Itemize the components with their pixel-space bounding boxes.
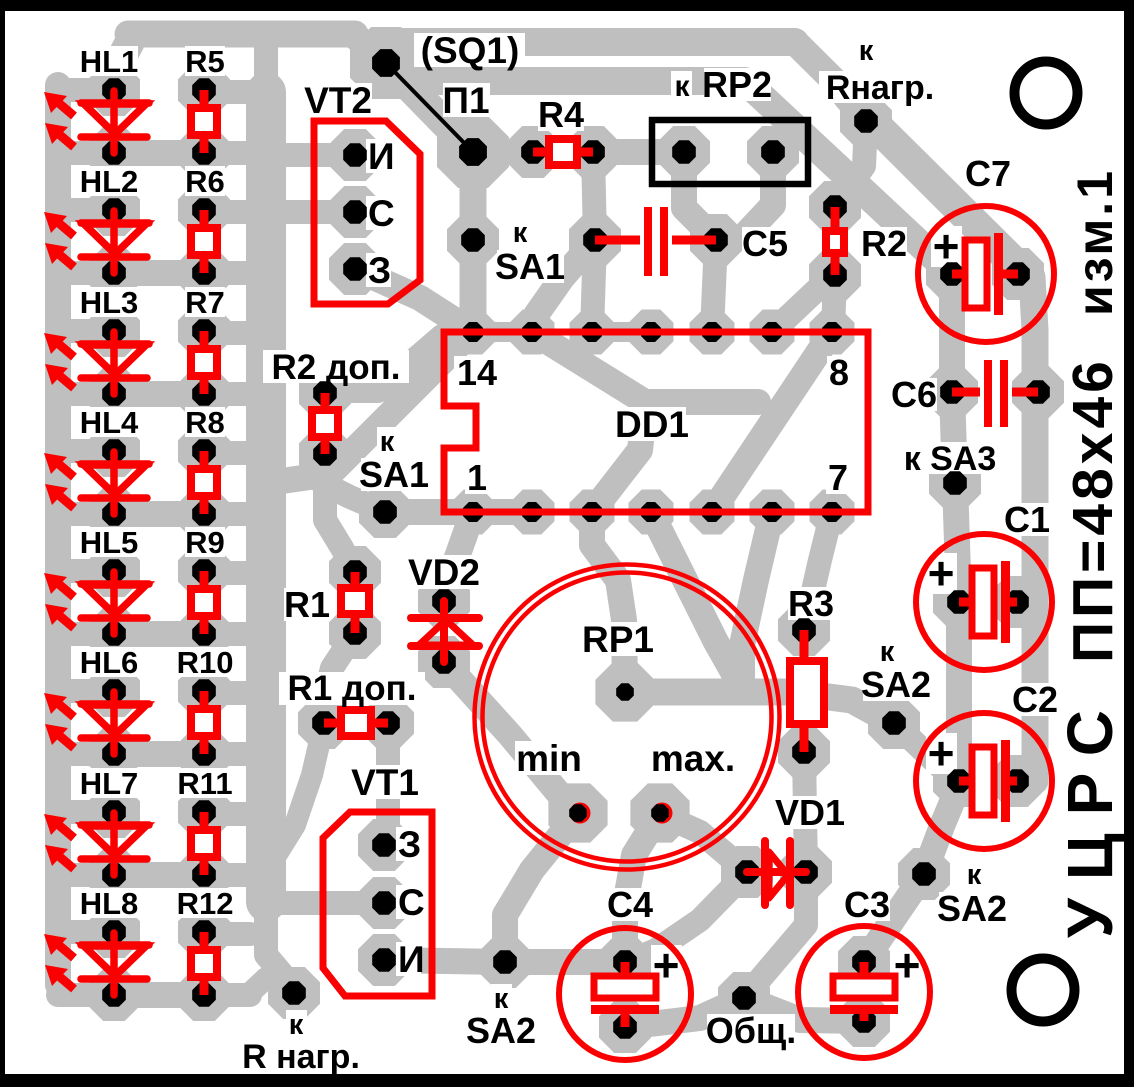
- copper HL8 cathode pad: [88, 969, 140, 1021]
- IC DD1 outline: [444, 332, 868, 512]
- copper HL6 cathode pad: [88, 728, 140, 780]
- wire C1R stub: [1017, 590, 1035, 614]
- wire VD2 to min: [444, 662, 578, 813]
- wire stub HL6 top: [58, 679, 114, 703]
- copper R5 pad top: [178, 64, 230, 116]
- wire C4 to Obsh: [625, 998, 744, 1027]
- copper C3 pad bottom: [838, 995, 890, 1047]
- wire P1 to R4: [473, 139, 533, 165]
- R3 pad top: [792, 618, 816, 642]
- copper DD1 pin pad bottom 3: [629, 490, 674, 535]
- R3 pad bottom: [792, 740, 816, 764]
- copper Obsh pad: [718, 972, 770, 1024]
- svg-text:к: к: [674, 70, 690, 103]
- wire top bar elbow to SQ1: [352, 34, 386, 63]
- R11 pad top: [192, 800, 216, 824]
- capacitor C3: [798, 926, 930, 1058]
- svg-text:SA2: SA2: [466, 1010, 536, 1051]
- svg-text:C4: C4: [607, 884, 653, 925]
- capacitor C7: [918, 206, 1054, 342]
- resistor R9: [200, 571, 209, 634]
- C1 pad left: [947, 590, 971, 614]
- RP2 conn pad left: [672, 140, 696, 164]
- copper Rload k pad: [268, 967, 320, 1019]
- wire R3 top to pin7: [804, 512, 832, 630]
- wire R4 to C5L: [593, 152, 595, 240]
- wire HL1-R5 bar: [114, 140, 204, 166]
- svg-text:1: 1: [467, 457, 487, 498]
- wire VD1 to Obsh: [744, 872, 806, 998]
- svg-text:R6: R6: [185, 164, 225, 199]
- HL8 cathode pad: [102, 983, 126, 1007]
- wire pin1 to VD2: [444, 512, 473, 601]
- svg-text:R2 доп.: R2 доп.: [272, 348, 401, 387]
- copper R12 pad top: [178, 906, 230, 958]
- DD1 pin pad top 0: [463, 322, 483, 342]
- wire left trunk: [45, 85, 71, 985]
- resistor R3: [800, 630, 809, 752]
- svg-text:max.: max.: [651, 738, 735, 779]
- svg-text:С: С: [398, 882, 425, 923]
- copper R3 pad top: [778, 604, 830, 656]
- wire stub HL4 bottom: [58, 502, 114, 526]
- HL6 cathode pad: [102, 742, 126, 766]
- VT2 pad C: [343, 200, 367, 224]
- C5 pad right: [704, 228, 728, 252]
- R1 pad bottom: [343, 621, 367, 645]
- copper HL8 anode pad: [88, 906, 140, 958]
- copper R8 pad bottom: [178, 488, 230, 540]
- HL5 anode pad: [102, 559, 126, 583]
- DD1 pin pad bottom 5: [762, 502, 782, 522]
- copper C6 pad left: [926, 366, 978, 418]
- resistor R8: [200, 451, 209, 514]
- copper VD2 pad top: [418, 575, 470, 627]
- C2 pad left: [947, 769, 971, 793]
- svg-text:SA1: SA1: [359, 454, 429, 495]
- R1dop pad right: [376, 711, 400, 735]
- SA1 pad top: [461, 228, 485, 252]
- wire SA2 to C2L: [894, 723, 952, 778]
- svg-text:14: 14: [457, 352, 497, 393]
- mounting hole bottom right: [1012, 959, 1075, 1022]
- wire stub HL6 bottom: [58, 742, 114, 766]
- VD2 pad bottom: [432, 650, 456, 674]
- copper R5 pad bottom: [178, 127, 230, 179]
- svg-text:HL1: HL1: [80, 44, 139, 79]
- wire VD1 to max: [662, 815, 747, 872]
- svg-text:C1: C1: [1004, 499, 1050, 540]
- R7 pad top: [192, 319, 216, 343]
- copper HL2 anode pad: [88, 184, 140, 236]
- copper VT1 pad I: [358, 934, 410, 986]
- wire pin1 bar: [385, 499, 532, 525]
- copper VD1 pad right: [780, 846, 832, 898]
- copper HL1 anode pad: [88, 64, 140, 116]
- resistor R7: [200, 331, 209, 394]
- copper RP2 conn pad left: [658, 126, 710, 178]
- wire stub R8 bottom: [204, 502, 250, 526]
- R9 pad top: [192, 559, 216, 583]
- wire cap trunk left: [952, 274, 959, 781]
- svg-text:C7: C7: [965, 153, 1011, 194]
- copper SA1 pad top: [447, 214, 499, 266]
- svg-text:HL3: HL3: [80, 285, 139, 320]
- svg-text:VD2: VD2: [408, 552, 480, 593]
- wire C7R stub: [1018, 274, 1032, 280]
- copper VD2 pad bottom: [418, 636, 470, 688]
- wire stub R5 bottom: [204, 141, 250, 165]
- svg-text:З: З: [368, 250, 391, 291]
- resistor R5: [200, 90, 209, 153]
- wire min to SA2m: [505, 813, 578, 962]
- DD1 pin pad bottom 3: [641, 502, 661, 522]
- copper RP2 conn pad right: [747, 126, 799, 178]
- copper DD1 pin pad bottom 5: [750, 490, 795, 535]
- copper HL5 anode pad: [88, 545, 140, 597]
- connector to RP2 (black rect): [652, 120, 808, 184]
- capacitor C5: [595, 236, 640, 245]
- diode VD2: [440, 601, 448, 662]
- copper C2 pad right: [991, 755, 1043, 807]
- copper C2 pad left: [933, 755, 985, 807]
- wire pin6 into RP1: [742, 512, 772, 692]
- wire trunk to k pad: [266, 900, 294, 988]
- HL6 anode pad: [102, 679, 126, 703]
- C6 pad left: [940, 380, 964, 404]
- copper HL5 cathode pad: [88, 608, 140, 660]
- LED HL2: [44, 211, 149, 273]
- copper VT2 pad C: [329, 186, 381, 238]
- svg-text:RP2: RP2: [702, 64, 772, 105]
- DD1 pin pad bottom 4: [702, 502, 722, 522]
- HL4 anode pad: [102, 439, 126, 463]
- copper R4 pad left: [507, 126, 559, 178]
- copper C4 pad top: [599, 936, 651, 988]
- board frame top: [0, 0, 1134, 11]
- wire stub HL3 bottom: [58, 382, 114, 406]
- copper DD1 pin pad top 3: [629, 310, 674, 355]
- wire pad bridge 1-2: [473, 322, 532, 342]
- LED HL7: [44, 813, 149, 875]
- R10 pad bottom: [192, 742, 216, 766]
- wire central trunk top: [254, 40, 278, 95]
- wire DD1 internal pin2 diag: [532, 332, 758, 402]
- svg-text:SA1: SA1: [495, 246, 565, 287]
- svg-text:HL7: HL7: [80, 766, 139, 801]
- copper HL3 cathode pad: [88, 368, 140, 420]
- wire C2R stub: [1017, 769, 1035, 793]
- resistor R1 dop: [324, 719, 388, 728]
- copper R2 pad top: [809, 181, 861, 233]
- svg-text:+: +: [933, 220, 960, 272]
- wire stub R11 top: [204, 802, 250, 826]
- svg-text:(SQ1): (SQ1): [421, 30, 520, 71]
- wire max to C4: [625, 813, 660, 962]
- Obsh pad: [732, 986, 756, 1010]
- copper HL2 cathode pad: [88, 247, 140, 299]
- copper DD1 pin pad bottom 2: [570, 490, 615, 535]
- copper C4 pad bottom: [599, 1001, 651, 1053]
- copper SA3 pad: [929, 457, 981, 509]
- Rload pad: [854, 109, 878, 133]
- DD1 pin pad top 5: [762, 322, 782, 342]
- Rload k pad: [282, 981, 306, 1005]
- copper HL3 anode pad: [88, 305, 140, 357]
- copper R1 pad bottom: [329, 607, 381, 659]
- wire stub R11 bottom: [204, 863, 250, 887]
- copper SA1 pad bottom: [359, 486, 411, 538]
- copper DD1 pin pad top 4: [690, 310, 735, 355]
- svg-text:УЦРС: УЦРС: [1054, 692, 1126, 938]
- wire VT2 source bar: [280, 143, 355, 167]
- svg-text:HL5: HL5: [80, 525, 139, 560]
- R4 pad right: [581, 140, 605, 164]
- copper VT1 pad C: [358, 877, 410, 929]
- wire diag to C7R: [795, 42, 1035, 781]
- R8 pad top: [192, 439, 216, 463]
- copper RP1 max pad: [630, 783, 689, 842]
- HL2 anode pad: [102, 198, 126, 222]
- R2dop pad top: [313, 381, 337, 405]
- wire R1dop left descent: [272, 723, 324, 862]
- wire R1dop to VT1 gate: [376, 723, 400, 845]
- copper VT1 pad Z: [358, 819, 410, 871]
- R11 pad bottom: [192, 863, 216, 887]
- wire R2 to pin8: [833, 275, 835, 332]
- resistor R11: [200, 812, 209, 875]
- wire R4 to RP2 conn: [593, 139, 684, 165]
- copper R6 pad bottom: [178, 247, 230, 299]
- wire HL6-R10 bar: [114, 741, 204, 767]
- svg-text:HL2: HL2: [80, 164, 139, 199]
- copper R4 pad right: [567, 126, 619, 178]
- copper RP1 wiper pad: [595, 662, 654, 721]
- VT1 pad Z: [372, 833, 396, 857]
- wire R2dop to R1: [325, 454, 355, 572]
- C7 pad left: [940, 262, 964, 286]
- jumper wire SQ1 to P1: [386, 63, 473, 152]
- svg-text:VT2: VT2: [304, 80, 372, 121]
- SA2 pad right: [882, 711, 906, 735]
- R12 pad top: [192, 920, 216, 944]
- copper SQ1 pad: [350, 27, 422, 99]
- wire stub R10 top: [204, 681, 250, 705]
- R8 pad bottom: [192, 502, 216, 526]
- resistor R2: [831, 207, 840, 275]
- wire pin4b into RP1: [651, 512, 742, 688]
- DD1 pin pad bottom 6: [822, 502, 842, 522]
- VT1 pad I: [372, 948, 396, 972]
- R2 pad bottom: [823, 263, 847, 287]
- C3 pad top: [852, 950, 876, 974]
- wire stub R12 top: [204, 922, 250, 946]
- copper R1 pad top: [329, 546, 381, 598]
- wire stub HL5 top: [58, 559, 114, 583]
- copper HL6 anode pad: [88, 665, 140, 717]
- DD1 pin pad bottom 2: [582, 502, 602, 522]
- R1 pad top: [343, 560, 367, 584]
- copper HL7 cathode pad: [88, 849, 140, 901]
- svg-text:R9: R9: [185, 525, 225, 560]
- SA2 pad mid: [493, 950, 517, 974]
- wire C5 to pin3: [592, 240, 595, 332]
- DD1 pin pad top 6: [822, 322, 842, 342]
- svg-text:к: к: [513, 217, 528, 249]
- wire C3 to Obsh: [744, 998, 864, 1021]
- svg-text:С: С: [368, 193, 395, 234]
- transistor VT1 outline: [323, 812, 432, 996]
- VT2 pad I: [343, 143, 367, 167]
- svg-text:к: к: [289, 1009, 304, 1041]
- RP2 conn pad right: [761, 140, 785, 164]
- copper R7 pad top: [178, 305, 230, 357]
- svg-text:C6: C6: [891, 374, 937, 415]
- wire stub R7 bottom: [204, 382, 250, 406]
- LED HL5: [44, 572, 149, 634]
- HL7 cathode pad: [102, 863, 126, 887]
- C3 pad bottom: [852, 1009, 876, 1033]
- svg-text:R12: R12: [177, 886, 234, 921]
- wire stub HL1 bottom: [58, 141, 114, 165]
- copper R1dop pad left: [298, 697, 350, 749]
- resistor R10: [200, 691, 209, 754]
- svg-text:R4: R4: [538, 94, 584, 135]
- svg-text:R10: R10: [177, 645, 234, 680]
- wire stub R6 bottom: [204, 261, 250, 285]
- board frame right: [1124, 0, 1134, 1087]
- transistor VT2 outline: [314, 121, 420, 304]
- wire SA2b to C2L: [924, 790, 957, 874]
- wire Rload up stub: [832, 80, 866, 121]
- resistor R1: [351, 572, 360, 633]
- board frame left: [0, 0, 5, 1087]
- wire stub R7 top: [204, 321, 250, 345]
- LED HL6: [44, 692, 149, 754]
- RP1 min pad: [570, 803, 591, 824]
- svg-text:+: +: [653, 939, 680, 991]
- C7 pad right: [1006, 262, 1030, 286]
- copper C7 pad left: [926, 248, 978, 300]
- HL3 cathode pad: [102, 382, 126, 406]
- HL2 cathode pad: [102, 261, 126, 285]
- svg-text:Rнагр.: Rнагр.: [826, 69, 934, 107]
- copper R10 pad bottom: [178, 728, 230, 780]
- svg-text:R3: R3: [788, 583, 834, 624]
- svg-text:HL4: HL4: [80, 405, 139, 440]
- HL7 anode pad: [102, 800, 126, 824]
- DD1 pin pad top 3: [641, 322, 661, 342]
- LED HL1: [44, 91, 149, 153]
- copper R2dop pad bottom: [299, 428, 351, 480]
- C5 pad left: [583, 228, 607, 252]
- copper P1 pad: [437, 116, 509, 188]
- svg-text:R1: R1: [284, 584, 330, 625]
- wire stub HL3 top: [58, 319, 114, 343]
- wire VD1 to C4: [628, 872, 747, 962]
- wire band2: [390, 72, 952, 274]
- RP1 wiper pad: [616, 683, 634, 701]
- wire stub R5 top: [204, 80, 250, 104]
- copper Rload pad: [840, 95, 892, 147]
- wire stub HL8 bottom: [58, 983, 114, 1007]
- wire HL5-R9 bar: [114, 621, 204, 647]
- wire R2 to Rload: [835, 121, 866, 207]
- wire top bar: [128, 21, 355, 48]
- VT2 pad Z: [343, 257, 367, 281]
- wire HL4-R8 bar: [114, 501, 204, 527]
- wire top bar elbow to HL1: [114, 38, 132, 90]
- DD1 pin pad top 2: [582, 322, 602, 342]
- board frame bottom: [0, 1074, 1134, 1087]
- svg-text:8: 8: [829, 352, 849, 393]
- copper DD1 pin pad top 0: [451, 310, 496, 355]
- copper C6 pad right: [1012, 366, 1064, 418]
- copper R1dop pad right: [362, 697, 414, 749]
- resistor R12: [200, 932, 209, 995]
- svg-text:R8: R8: [185, 405, 225, 440]
- R6 pad bottom: [192, 261, 216, 285]
- wire VT1 drain bar: [384, 960, 505, 962]
- svg-text:VT1: VT1: [351, 762, 419, 803]
- C4 pad top: [613, 950, 637, 974]
- HL1 anode pad: [102, 78, 126, 102]
- wire stub HL5 bottom: [58, 622, 114, 646]
- copper C7 pad right: [992, 248, 1044, 300]
- DD1 pin pad bottom 0: [463, 502, 483, 522]
- wire SA1b link: [322, 483, 385, 512]
- copper R6 pad top: [178, 184, 230, 236]
- P1 pad: [459, 138, 487, 166]
- svg-text:VD1: VD1: [775, 792, 845, 833]
- SA2 pad bottom right: [912, 862, 936, 886]
- wire P1 vertical: [460, 152, 487, 332]
- svg-text:min: min: [516, 738, 582, 779]
- wire stub HL7 top: [58, 800, 114, 824]
- copper HL4 anode pad: [88, 425, 140, 477]
- wire Rload diag to C7R: [866, 121, 1018, 273]
- DD1 pin pad bottom 1: [522, 502, 542, 522]
- wire DD1 internal pin3b diag: [592, 405, 645, 512]
- svg-text:+: +: [894, 939, 921, 991]
- svg-text:R7: R7: [185, 285, 225, 320]
- svg-text:к: к: [967, 859, 982, 891]
- svg-text:HL8: HL8: [80, 886, 139, 921]
- copper R11 pad top: [178, 786, 230, 838]
- svg-text:R1 доп.: R1 доп.: [288, 669, 417, 708]
- wire stub R9 top: [204, 561, 250, 585]
- RP1 max pad: [652, 803, 673, 824]
- HL3 anode pad: [102, 319, 126, 343]
- wire notch diag: [268, 338, 466, 483]
- R6 pad top: [192, 198, 216, 222]
- wire stub R12 bottom: [204, 983, 250, 1007]
- VD2 pad top: [432, 589, 456, 613]
- wire R1 to R1dop: [324, 633, 355, 723]
- SA3 pad: [943, 471, 967, 495]
- copper SA2 pad right: [868, 697, 920, 749]
- C2 pad right: [1005, 769, 1029, 793]
- svg-text:R5: R5: [185, 44, 225, 79]
- copper C5 pad right: [690, 214, 742, 266]
- wire RP1 to SA2: [625, 692, 894, 723]
- copper VT2 pad I: [329, 129, 381, 181]
- svg-text:R нагр.: R нагр.: [242, 1038, 360, 1076]
- wire stub HL4 top: [58, 439, 114, 463]
- svg-text:HL6: HL6: [80, 645, 139, 680]
- wire HL3-R7 bar: [114, 381, 204, 407]
- wire R2dop stub: [326, 336, 442, 391]
